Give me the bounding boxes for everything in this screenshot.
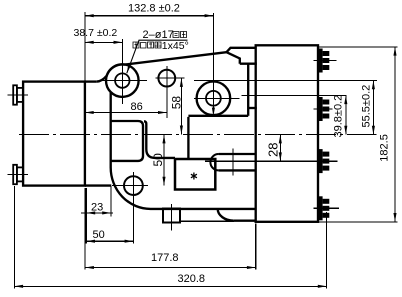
bottom hole centerline vertical [132, 172, 134, 244]
arrow 38.7 right [114, 41, 123, 44]
arrow 182.5 up [393, 47, 396, 56]
svg-text:28: 28 [265, 143, 280, 157]
dim line 28 [279, 135, 281, 162]
hanzi glyph blocks note [133, 32, 187, 49]
svg-text:132.8 ±0.2: 132.8 ±0.2 [128, 3, 180, 15]
arrow 50b right [125, 240, 134, 243]
dim line 55.5 [372, 81, 374, 135]
rear plate edge [247, 64, 249, 116]
small hole centerline vertical [166, 66, 168, 118]
F2 centerline [314, 108, 333, 110]
arrow 132.8 left [85, 14, 94, 17]
ext line dim182.5 bottom [319, 221, 398, 223]
ext line dim132.8 left [84, 12, 86, 81]
dim line 58 [180, 78, 182, 134]
ext line dim182.5 top [319, 46, 398, 48]
svg-text:320.8: 320.8 [178, 273, 206, 285]
fitting F1 [319, 49, 329, 73]
left block top edge extension [85, 80, 97, 82]
arrow 23 left [86, 211, 95, 214]
stud bottom centerline [8, 173, 28, 175]
arrow 50b left [86, 240, 95, 243]
port line lower [242, 94, 347, 96]
dim line 39.8 [345, 95, 347, 134]
rear plate lower cap [248, 107, 257, 109]
asterisk mark [191, 173, 197, 180]
bottom step fillet [218, 209, 234, 221]
hanzi dao [148, 42, 154, 48]
port line upper [194, 80, 377, 82]
arrow 132.8 right [205, 14, 214, 17]
arrow 28 down [279, 152, 282, 161]
arrow 50v down [162, 177, 165, 186]
suction stub bottom [219, 169, 256, 171]
ext line dim320.8 right [326, 212, 328, 288]
port boss rounded pad [111, 121, 143, 161]
svg-text:86: 86 [131, 101, 143, 113]
svg-text:177.8: 177.8 [151, 252, 179, 264]
ext line dim177.8 right [255, 224, 257, 270]
port fittings right face [319, 49, 329, 221]
dim line 38.7 [85, 41, 122, 43]
arrow 38.7 left [85, 41, 94, 44]
arrow 55.5 up [372, 81, 375, 90]
arrow leader [127, 64, 131, 73]
arrow 28 up [279, 135, 282, 144]
fitting F3 [319, 149, 329, 173]
boss circle C2 outer [197, 82, 231, 116]
fitting F2 [319, 97, 329, 121]
arrow 177.8 right [247, 266, 256, 269]
main centerline [19, 134, 377, 136]
C2 centerline horizontal [194, 97, 239, 99]
arrow 39.8 up [344, 95, 347, 104]
boss circle C1 outer [106, 64, 139, 97]
dim line 320.8 [14, 285, 326, 287]
stud top head [13, 85, 17, 104]
stud bottom body [17, 167, 23, 181]
arrow 50v up [162, 135, 165, 144]
dimension texts [74, 3, 391, 285]
svg-text:23: 23 [91, 202, 103, 214]
svg-text:50: 50 [93, 229, 105, 241]
arrow 23 right [102, 211, 111, 214]
dim line 86 [85, 112, 167, 114]
flange plate left edge and corner arc [111, 92, 151, 209]
dim line 132.8 [85, 15, 214, 17]
ext line dim177.8 left [84, 188, 86, 270]
C2 centerline vertical [212, 13, 214, 113]
bottom hole centerline horizontal [112, 185, 148, 187]
stud bottom head [13, 165, 17, 184]
svg-text:58: 58 [169, 96, 183, 110]
arrow 320.8 left [14, 285, 23, 288]
stub centerline vertical [232, 148, 234, 175]
ext line dim23 right [110, 186, 112, 216]
bottom lower edge [234, 220, 256, 222]
stud top centerline [7, 94, 28, 96]
F1 centerline [314, 59, 337, 61]
bottom hole circle [124, 176, 143, 195]
ext line dim23 left [85, 188, 87, 244]
svg-text:1x45°: 1x45° [162, 40, 189, 52]
F4 centerline [314, 207, 339, 209]
arrow 177.8 left [85, 266, 94, 269]
arrow 320.8 right [318, 285, 327, 288]
svg-text:182.5: 182.5 [379, 134, 391, 162]
arrow 86 right [158, 111, 167, 114]
mounting tab [163, 209, 180, 223]
leader line note [127, 40, 188, 73]
plate right edge [227, 52, 240, 64]
drain box [175, 159, 215, 190]
dim line 50 bottom [86, 240, 133, 242]
hole C2 inner [206, 91, 221, 106]
C1 centerline horizontal [99, 80, 147, 82]
top lobe fillet and slant edge [97, 52, 227, 81]
hanzi jiao [155, 42, 161, 48]
svg-text:39.8±0.2: 39.8±0.2 [333, 95, 345, 138]
suction stub cap [210, 154, 218, 170]
left block body [23, 82, 85, 186]
hanzi tong [173, 32, 179, 38]
tab centerline [171, 204, 173, 230]
ext line dim86-58 small hole [166, 110, 168, 118]
stud top body [17, 88, 23, 102]
body bottom edge [151, 208, 256, 210]
small hole circle [158, 70, 175, 87]
stub and F3 centerline [205, 160, 337, 162]
body inner step vertical [187, 117, 189, 159]
svg-text:38.7 ±0.2: 38.7 ±0.2 [74, 27, 118, 39]
hanzi kong2 [133, 42, 139, 48]
hanzi kong1 [181, 32, 187, 38]
arrow 55.5 down [372, 126, 375, 135]
svg-text:55.5±0.2: 55.5±0.2 [361, 85, 373, 128]
suction stub top [219, 153, 256, 155]
svg-text:50: 50 [151, 153, 165, 167]
small hole centerline horizontal [156, 77, 185, 79]
dim line 50 vertical [163, 135, 165, 186]
rear cover block [256, 45, 318, 222]
arrow 58 up [180, 78, 183, 87]
ext line dim320.8 left [13, 186, 15, 288]
body inner top edge [188, 115, 248, 117]
arrow 182.5 down [393, 213, 396, 222]
arrow 58 down [180, 126, 183, 135]
C1 centerline vertical [121, 39, 123, 104]
left block bottom edge extension [85, 184, 111, 186]
tab hidden line [180, 220, 234, 222]
dim line 177.8 [85, 267, 256, 269]
rear plate top cap [240, 63, 257, 65]
top step to rear block [227, 48, 256, 52]
fitting F4 [319, 196, 329, 220]
hole C1 inner [115, 73, 129, 87]
dim line 23 [81, 212, 113, 214]
body step outline [144, 121, 175, 158]
arrow C2 center mark [212, 108, 215, 117]
arrow 86 left [85, 111, 94, 114]
hanzi kou [141, 43, 147, 49]
arrow 39.8 down [344, 126, 347, 135]
dim line 182.5 [394, 47, 396, 222]
